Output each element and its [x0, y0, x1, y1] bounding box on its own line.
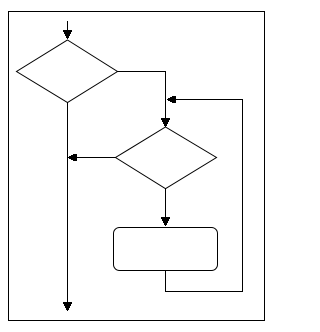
arrowhead exit at bottom (stepped, pointing down) — [63, 302, 72, 311]
page frame — [9, 12, 265, 321]
wire: loop from box bottom, down right and up — [166, 100, 243, 292]
arrowhead into D2 top (stepped, pointing down) — [161, 118, 170, 127]
decision D1 (top-left diamond) — [17, 40, 118, 103]
arrowhead into process box (stepped, pointing down) — [161, 217, 170, 226]
arrowhead into D1 (stepped, pointing down) — [63, 30, 72, 39]
decision D2 (middle diamond) — [116, 127, 217, 189]
wire: D2 bottom branch down to process box — [165, 189, 167, 217]
process box (rounded rectangle) — [114, 228, 218, 271]
wire: D2 left branch to main down line — [77, 157, 116, 159]
wire: D1 right branch, right then down to D2 — [118, 72, 166, 119]
arrowhead of loop onto D2 inlet line (stepped, pointing left) — [167, 96, 176, 103]
wire: entry arrow shaft into decision D1 — [67, 21, 69, 30]
wire: main line from D1 bottom to exit — [67, 103, 69, 303]
arrowhead onto main down line (stepped, pointing left) — [68, 154, 77, 161]
